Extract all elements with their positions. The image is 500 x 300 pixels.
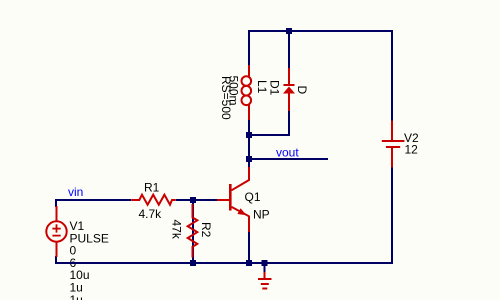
wire top rail — [248, 30, 393, 32]
resistor R1 — [131, 195, 176, 205]
voltage source V2 — [382, 121, 405, 168]
wire V2 branch bottom — [391, 167, 393, 264]
svg-text:vout: vout — [276, 146, 299, 160]
transistor Q1 — [217, 167, 249, 232]
svg-text:Q1: Q1 — [245, 190, 261, 204]
svg-text:R1: R1 — [144, 181, 160, 195]
svg-text:NP: NP — [253, 208, 270, 222]
junction emitter bottom — [246, 260, 252, 266]
wire L branch bottom — [248, 119, 250, 167]
wire vout stub — [248, 158, 328, 160]
wire V2 branch top — [391, 30, 393, 121]
junction ground — [262, 260, 268, 266]
svg-text:R2: R2 — [199, 222, 213, 238]
wire V1 branch bottom — [55, 256, 57, 264]
svg-text:D1: D1 — [268, 80, 282, 96]
svg-text:4.7k: 4.7k — [139, 207, 163, 221]
wire L branch top — [248, 30, 250, 66]
svg-text:L1: L1 — [255, 80, 269, 94]
ground — [258, 264, 272, 290]
wire R2 branch — [192, 200, 194, 263]
wire emitter down — [248, 231, 250, 264]
junction L1/D1 — [246, 132, 252, 138]
svg-text:12: 12 — [405, 143, 419, 157]
junction R2 bottom — [190, 260, 196, 266]
wire base row left — [55, 199, 131, 201]
inductor L1 — [242, 65, 252, 120]
junction top D1 — [286, 28, 292, 34]
svg-text:47k: 47k — [170, 220, 184, 240]
resistor R2 — [188, 204, 198, 258]
wire base row mid — [176, 199, 218, 201]
wire V1 branch top — [55, 199, 57, 207]
wire D branch top — [288, 30, 290, 68]
svg-text:D: D — [295, 86, 309, 95]
svg-text:vin: vin — [68, 185, 83, 199]
wire bottom rail overdraw — [55, 262, 393, 264]
diode D1 — [283, 68, 295, 111]
voltage source V1 — [46, 206, 66, 257]
svg-text:RS=500: RS=500 — [219, 76, 233, 120]
junction R1/R2 — [190, 197, 196, 203]
wire bottom rail — [55, 262, 393, 264]
wire D1 bottom link — [248, 134, 290, 136]
wire D branch bottom — [288, 111, 290, 136]
svg-text:1u: 1u — [70, 293, 83, 300]
junction vout — [246, 156, 252, 162]
